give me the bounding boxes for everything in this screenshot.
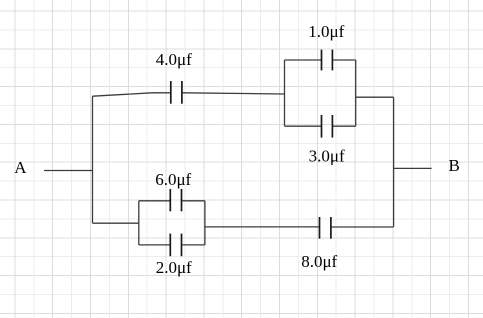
svg-text:B: B bbox=[449, 156, 460, 175]
svg-text:4.0μf: 4.0μf bbox=[156, 50, 192, 69]
wire right vertical bbox=[393, 97, 395, 227]
wire loop2 right edge bbox=[204, 201, 206, 245]
wire loop1 right edge bbox=[355, 60, 357, 126]
wire loop1 exit bbox=[356, 96, 394, 98]
wire loop2 left edge bbox=[138, 201, 140, 245]
wire loop1 left edge bbox=[284, 60, 286, 126]
svg-text:A: A bbox=[14, 158, 27, 177]
svg-text:2.0μf: 2.0μf bbox=[156, 258, 192, 277]
wire bottom right bbox=[331, 226, 393, 228]
wire B lead bbox=[394, 167, 432, 169]
capacitor 2.0uf bbox=[170, 234, 181, 257]
capacitor 3.0uf bbox=[322, 115, 333, 138]
wire A lead bbox=[44, 170, 93, 172]
capacitor 4.0uf bbox=[171, 81, 182, 104]
wire loop1 bottom edge bbox=[285, 125, 356, 127]
capacitor 6.0uf bbox=[170, 189, 181, 211]
wire loop2 bottom edge bbox=[139, 244, 205, 246]
wire left vertical bbox=[92, 96, 94, 223]
svg-text:8.0μf: 8.0μf bbox=[301, 252, 337, 271]
wire bottom link bbox=[93, 222, 139, 224]
wire bottom middle bbox=[205, 226, 319, 228]
wire top branch right bbox=[183, 93, 285, 94]
wire top branch left bbox=[93, 93, 171, 96]
svg-text:1.0μf: 1.0μf bbox=[308, 22, 344, 41]
svg-text:6.0μf: 6.0μf bbox=[155, 170, 191, 189]
wire loop1 top edge bbox=[285, 59, 356, 61]
svg-text:3.0μf: 3.0μf bbox=[309, 147, 345, 166]
capacitor 8.0uf bbox=[320, 217, 331, 239]
wire loop2 top edge bbox=[139, 200, 205, 202]
capacitor 1.0uf bbox=[322, 50, 333, 71]
